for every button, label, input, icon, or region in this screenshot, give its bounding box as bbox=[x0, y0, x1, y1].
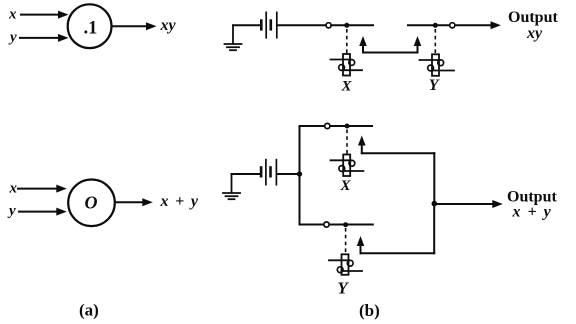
wire top branch bbox=[300, 125, 373, 127]
svg-text:X: X bbox=[340, 178, 352, 194]
wire battery to junction bbox=[277, 173, 299, 175]
junction dot to relay X coil bbox=[344, 23, 349, 28]
battery parallel circuit bbox=[261, 159, 276, 186]
ground parallel circuit bbox=[223, 174, 240, 199]
wire x input arrow to O bbox=[18, 185, 67, 193]
OR unit O circle bbox=[68, 180, 115, 227]
AND unit A circle bbox=[68, 4, 112, 48]
wire O output arrow bbox=[115, 198, 153, 206]
svg-text:O: O bbox=[85, 193, 98, 213]
svg-text:xy: xy bbox=[160, 17, 177, 34]
svg-text:x + y: x + y bbox=[160, 193, 200, 210]
contact (open circle) a bbox=[326, 23, 331, 28]
junction dot to relay Y coil bbox=[433, 23, 438, 28]
wire switch gap to junction Y bbox=[408, 24, 450, 26]
svg-text:y: y bbox=[8, 30, 17, 46]
wire to output (arrow) bbox=[455, 21, 501, 29]
wire y input arrow to O bbox=[19, 208, 67, 216]
contact (open circle) top branch bbox=[325, 123, 330, 128]
dashed link to Y coil bbox=[434, 29, 436, 54]
svg-text:(a): (a) bbox=[79, 301, 99, 320]
switch armature arrow X (parallel) with wire to output bus bbox=[358, 136, 434, 204]
wire bottom branch bbox=[300, 224, 373, 226]
relay coil Y (parallel) bbox=[329, 254, 362, 274]
wire output arrow (parallel) bbox=[437, 200, 503, 208]
contact (open circle) bottom branch bbox=[324, 222, 329, 227]
switch armature linkage X-Y (up arrows with connector) bbox=[359, 36, 421, 53]
wire ground to battery bbox=[232, 173, 261, 175]
contact (open circle) b bbox=[450, 23, 455, 28]
svg-text:.1: .1 bbox=[84, 18, 98, 38]
svg-text:Y: Y bbox=[429, 77, 440, 94]
svg-text:x: x bbox=[9, 181, 18, 197]
relay coil Y (series) bbox=[420, 54, 455, 76]
output node dot bbox=[432, 201, 438, 207]
wire A output arrow bbox=[113, 22, 157, 30]
svg-text:X: X bbox=[341, 79, 353, 95]
dashed link to X coil bbox=[346, 29, 348, 54]
junction dot to relay X coil (parallel) bbox=[345, 124, 350, 129]
dashed link to Y coil (parallel) bbox=[345, 228, 347, 254]
svg-text:y: y bbox=[7, 203, 16, 219]
wire vertical bus bbox=[299, 126, 301, 225]
wire contact a to switch gap bbox=[331, 24, 373, 26]
wire y input arrow to A bbox=[20, 34, 69, 42]
relay coil X (parallel) bbox=[331, 155, 364, 177]
svg-text:Output: Output bbox=[508, 9, 558, 26]
junction dot battery node bbox=[297, 171, 302, 176]
wire ground to battery bbox=[233, 24, 260, 26]
svg-text:x + y: x + y bbox=[512, 204, 553, 221]
wire x input arrow to A bbox=[21, 11, 69, 19]
battery series circuit bbox=[261, 12, 277, 39]
ground series circuit bbox=[225, 25, 242, 50]
svg-text:x: x bbox=[8, 7, 17, 23]
relay coil X (series) bbox=[331, 54, 363, 76]
dashed link to X coil (parallel) bbox=[346, 130, 348, 155]
svg-text:(b): (b) bbox=[359, 301, 380, 320]
wire battery to contact a bbox=[278, 24, 326, 26]
switch armature arrow Y (parallel) with wire to output bus bbox=[357, 205, 435, 253]
svg-text:xy: xy bbox=[526, 25, 543, 42]
junction dot to relay Y coil (parallel) bbox=[343, 222, 348, 227]
